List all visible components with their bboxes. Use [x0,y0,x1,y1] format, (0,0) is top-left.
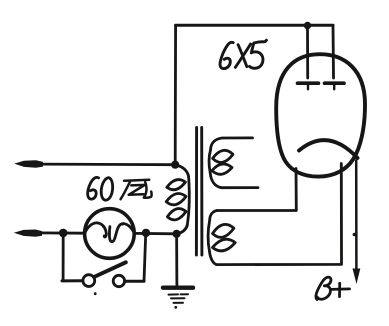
blob on B+ line [353,233,357,237]
primary winding T1a [166,165,189,234]
switch branch left drop [62,233,65,280]
wire AC line 1 [40,163,175,166]
secondary winding S1 filament [209,138,258,188]
secondary winding S2 HV [208,211,235,265]
wire AC line 2 to lamp [39,231,85,234]
speck below switch [94,292,97,295]
wire filament drop to secondary1 [217,169,296,211]
switch contact right [113,275,124,286]
node plate junction [304,22,311,29]
label 6X5 [220,40,266,68]
plate anode left [298,83,319,89]
node primary bottom [173,230,181,238]
wire lamp to transformer [134,232,176,235]
tube envelope V1 [276,54,365,176]
plate anode right [325,83,345,89]
wire left vertical from top bus to primary top [174,25,177,163]
switch lever [94,262,126,277]
switch wire bottom left [62,279,83,282]
node lamp left [59,229,68,238]
lamp filament [85,223,106,237]
speckles in lamp [122,224,124,226]
switch contact left [83,275,95,287]
wire right plate drop [332,25,335,78]
ground [163,288,193,309]
label watt character [121,180,152,199]
transformer core [195,128,198,256]
wire left plate lead [306,26,309,79]
node lamp right [142,229,150,237]
label 60 [88,177,113,200]
node primary top [171,161,179,169]
wire HV bottom lead to B+ junction [217,164,342,265]
label B+ [316,277,350,299]
arrow left AC line 2 [14,230,42,237]
arrow left AC line 1 [14,160,43,167]
switch wire bottom right [125,280,144,283]
cathode arc [299,140,358,158]
wire B+ cathode line [355,161,358,273]
switch branch right rise [144,235,146,282]
lamp bulb 60W [85,209,135,259]
wire top bus [176,24,333,27]
wire ground lead [175,234,178,286]
arrowhead B+ down [353,269,361,285]
